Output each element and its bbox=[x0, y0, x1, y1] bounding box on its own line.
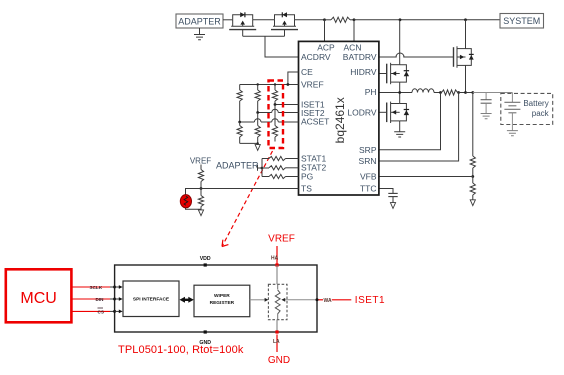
wire LODRV gate bbox=[379, 111, 387, 113]
potentiometer resistor element bbox=[277, 284, 279, 289]
svg-text:SRN: SRN bbox=[359, 156, 377, 166]
wire ISET2 pin with hop bbox=[258, 112, 299, 114]
node ADAPTER pullup junction bbox=[261, 167, 264, 170]
transistor Q2 input P-FET with body diode bbox=[274, 20, 276, 26]
svg-text:ADAPTER: ADAPTER bbox=[178, 16, 221, 26]
node ISET2 junction bbox=[256, 111, 259, 114]
ground arrow below divider bbox=[257, 143, 259, 144]
node ISET1 junction bbox=[274, 103, 277, 106]
svg-text:VREF: VREF bbox=[301, 80, 324, 90]
svg-text:LODRV: LODRV bbox=[347, 108, 376, 118]
bus double arrow between SPI and wiper register bbox=[184, 299, 191, 301]
wire SRP to pin bbox=[379, 93, 441, 150]
TPL0501 block outline bbox=[115, 265, 317, 332]
terminal HA red wire from VREF bbox=[276, 246, 278, 265]
resistor R6 lower right in red box bbox=[274, 105, 276, 126]
ground below Q5 bbox=[394, 132, 405, 137]
terminal LA red wire to GND bbox=[276, 320, 278, 332]
capacitor C3 on TTC bbox=[379, 189, 393, 194]
svg-text:CE: CE bbox=[301, 67, 313, 77]
battery pack cell symbol bbox=[511, 93, 513, 103]
resistor R2 VREF to ISET2 bbox=[257, 85, 259, 91]
svg-text:TS: TS bbox=[301, 184, 312, 194]
wire battery line grey bbox=[473, 92, 513, 94]
op-amp U1 bq2461x charge controller IC body bbox=[299, 41, 379, 195]
ground below C2 bbox=[481, 114, 492, 119]
wire CE tied to VREF bbox=[288, 72, 299, 85]
resistor R12 VREF to TS bbox=[200, 165, 202, 170]
red dashed arrow to TPL0501 block bbox=[222, 151, 273, 247]
node ACN junction bbox=[353, 18, 356, 21]
SPI signal DIN bbox=[71, 298, 110, 300]
svg-text:GND: GND bbox=[268, 355, 290, 366]
node ACSET junction bbox=[238, 121, 241, 124]
svg-text:VREF: VREF bbox=[268, 234, 295, 245]
svg-text:VFB: VFB bbox=[360, 172, 377, 182]
node CE-VREF junction bbox=[287, 83, 290, 86]
wiper contact arrow bbox=[285, 299, 287, 301]
node rail R2 junction bbox=[257, 83, 259, 85]
node SRN junction bbox=[457, 91, 460, 94]
resistor R5 lower middle bbox=[257, 113, 259, 126]
svg-text:TPL0501-100, Rtot=100k: TPL0501-100, Rtot=100k bbox=[118, 344, 244, 356]
wire ACN to SYSTEM bbox=[354, 19, 500, 21]
svg-text:PH: PH bbox=[365, 87, 377, 97]
wire between Q1 and Q2 bbox=[253, 19, 275, 21]
SPI INTERFACE box bbox=[123, 281, 179, 317]
adapter source box bbox=[176, 14, 223, 28]
wire wiper to block edge bbox=[287, 299, 317, 301]
wire VREF pin rail bbox=[240, 84, 299, 86]
svg-text:VDD: VDD bbox=[200, 256, 211, 262]
node TS junction bbox=[200, 187, 203, 190]
node rail R3 junction bbox=[274, 83, 276, 85]
wire BATDRV gate with hop over Q4 drain bbox=[379, 56, 454, 58]
svg-text:ADAPTER: ADAPTER bbox=[216, 161, 259, 171]
wire Q2 to ACP node bbox=[295, 19, 325, 21]
svg-text:WIPER: WIPER bbox=[214, 293, 230, 299]
svg-text:CS: CS bbox=[98, 309, 104, 314]
svg-text:SRP: SRP bbox=[359, 145, 377, 155]
ground arrow below C3 bbox=[390, 203, 395, 209]
wire Q3 drain to rail bbox=[465, 20, 467, 49]
svg-text:ACSET: ACSET bbox=[301, 117, 329, 127]
wire Q4 drain to rail bbox=[399, 20, 401, 65]
common gate rail of Q1 Q2 to ACDRV bbox=[243, 36, 299, 57]
node battery junction at Q3 bbox=[464, 91, 467, 94]
svg-text:SCLK: SCLK bbox=[90, 285, 103, 290]
svg-text:REGISTER: REGISTER bbox=[210, 300, 235, 306]
ground below battery pack bbox=[507, 131, 518, 136]
wire PH pin bbox=[379, 92, 412, 94]
svg-text:TTC: TTC bbox=[360, 184, 377, 194]
svg-text:HA: HA bbox=[271, 256, 279, 262]
resistor Rsns current sense bbox=[442, 90, 458, 95]
svg-text:VREF: VREF bbox=[190, 156, 211, 165]
svg-text:bq2461x: bq2461x bbox=[333, 97, 347, 143]
node VFB divider junction bbox=[471, 91, 474, 94]
wire ACSET pin with two hops bbox=[240, 121, 299, 123]
svg-text:pack: pack bbox=[532, 109, 550, 118]
svg-text:MCU: MCU bbox=[20, 290, 56, 307]
wire HIDRV gate bbox=[379, 73, 387, 75]
node PH junction at Q4/Q5 bbox=[398, 91, 401, 94]
svg-text:PG: PG bbox=[301, 172, 313, 182]
resistor R7 VFB divider top bbox=[472, 93, 474, 157]
wire TS to pin bbox=[201, 188, 299, 190]
resistor R1 VREF to ACSET bbox=[239, 85, 241, 91]
node system rail junction at Q4 drain bbox=[399, 18, 402, 21]
svg-text:ACP: ACP bbox=[317, 42, 335, 52]
WIPER REGISTER box bbox=[194, 285, 250, 317]
thermistor RT1 bbox=[186, 189, 202, 195]
wire ISET1 pin bbox=[275, 104, 299, 106]
wire SRN to pin bbox=[379, 93, 459, 162]
svg-text:WA: WA bbox=[324, 298, 332, 304]
resistor R8 VFB divider bottom bbox=[472, 177, 474, 184]
resistor R10 to STAT2 bbox=[262, 167, 269, 169]
capacitor C2 system output bbox=[485, 93, 487, 100]
ground arrow below R8 bbox=[470, 200, 475, 206]
wire Q5 drain to PH bbox=[399, 93, 401, 104]
battery pack dashed box bbox=[501, 93, 553, 124]
ground below adapter bbox=[199, 28, 201, 35]
pin tick after ADAPTER label bbox=[257, 165, 259, 171]
svg-text:HIDRV: HIDRV bbox=[350, 67, 377, 77]
node VFB junction bbox=[471, 175, 474, 178]
svg-text:SYSTEM: SYSTEM bbox=[503, 16, 540, 26]
wire Q5 source to ground bbox=[399, 121, 401, 132]
node system rail junction at Q3 drain bbox=[464, 18, 467, 21]
net label ISET1 red wire bbox=[319, 299, 324, 301]
transistor Q3 BATFET P-FET bbox=[453, 47, 455, 67]
wire Q3 source to battery line bbox=[465, 65, 467, 92]
node bottom rail junction bbox=[257, 142, 259, 144]
svg-text:ACN: ACN bbox=[344, 42, 362, 52]
svg-text:ACDRV: ACDRV bbox=[301, 52, 331, 62]
inductor L1 bbox=[412, 89, 434, 93]
resistor R11 to PG bbox=[262, 176, 269, 178]
MCU box bbox=[6, 269, 72, 322]
node WA junction on block edge bbox=[316, 298, 319, 301]
red dashed highlight box around R3 R6 bbox=[269, 81, 284, 149]
transistor Q1 input P-FET with body diode bbox=[232, 20, 234, 26]
transistor Q4 HIDRV N-FET bbox=[386, 64, 388, 84]
SPI signal CS bbox=[71, 310, 110, 312]
resistor R13 TS to ground bbox=[200, 189, 202, 196]
resistor input current sense ACP-ACN bbox=[325, 19, 332, 21]
wire Q4 source to PH bbox=[399, 82, 401, 92]
wiper arrow from register bbox=[250, 299, 265, 301]
transistor Q5 LODRV N-FET bbox=[386, 103, 388, 123]
node ACP junction bbox=[323, 18, 326, 21]
resistor R4 lower left bbox=[239, 122, 241, 126]
svg-text:Battery: Battery bbox=[523, 99, 548, 108]
SPI signal SCLK bbox=[71, 286, 110, 288]
wire VFB to pin bbox=[379, 176, 473, 178]
resistor R3 VREF to ISET1 inside red box bbox=[274, 85, 276, 91]
svg-text:SPI INTERFACE: SPI INTERFACE bbox=[133, 297, 170, 303]
wire adapter to Q1 bbox=[223, 19, 233, 21]
potentiometer dashed box bbox=[268, 284, 287, 319]
node SRP junction bbox=[439, 91, 442, 94]
ground arrow below TS divider bbox=[198, 210, 203, 216]
svg-text:LA: LA bbox=[273, 339, 280, 345]
svg-text:DIN: DIN bbox=[96, 297, 105, 302]
resistor R9 to STAT1 bbox=[262, 158, 269, 160]
wire bottom rail of divider bbox=[240, 142, 258, 144]
svg-text:BATDRV: BATDRV bbox=[343, 52, 377, 62]
svg-text:ISET1: ISET1 bbox=[355, 295, 385, 306]
system output box bbox=[500, 14, 544, 29]
